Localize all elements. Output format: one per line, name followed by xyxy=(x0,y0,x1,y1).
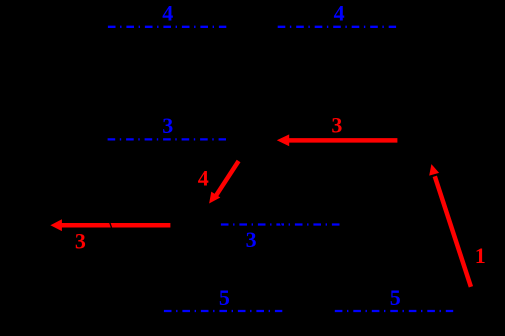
level line 5 (bottom-left, blue dash-dot) xyxy=(164,310,282,312)
red arrow 4 (diagonal, down-left) xyxy=(216,161,238,195)
svg-text:5: 5 xyxy=(219,285,230,310)
svg-text:4: 4 xyxy=(334,0,345,25)
level line 4 (top-left, blue dash-dot) xyxy=(108,26,226,28)
level line 5 (bottom-right, blue dash-dot) xyxy=(335,310,453,312)
svg-text:4: 4 xyxy=(198,166,209,191)
red arrow 3 (lower horizontal, right to left) xyxy=(62,223,171,228)
level line 3 (mid-center, blue dash-dot) xyxy=(221,223,340,225)
black crossing line over mid-center blue line xyxy=(279,218,284,232)
svg-text:5: 5 xyxy=(390,285,401,310)
level line 3 (mid-left, blue dash-dot) xyxy=(108,138,226,140)
red arrow 1 (pump, diagonal up, right side) xyxy=(435,176,471,286)
black crossing line over lower red arrow xyxy=(108,216,114,232)
level line 4 (top-right, blue dash-dot) xyxy=(278,26,396,28)
svg-text:1: 1 xyxy=(475,243,486,268)
svg-text:3: 3 xyxy=(246,227,257,252)
svg-text:3: 3 xyxy=(162,113,173,138)
svg-text:3: 3 xyxy=(75,228,86,253)
red arrow 3 (upper horizontal, right to left) xyxy=(289,138,398,143)
svg-text:3: 3 xyxy=(331,112,342,137)
svg-text:4: 4 xyxy=(162,0,173,25)
